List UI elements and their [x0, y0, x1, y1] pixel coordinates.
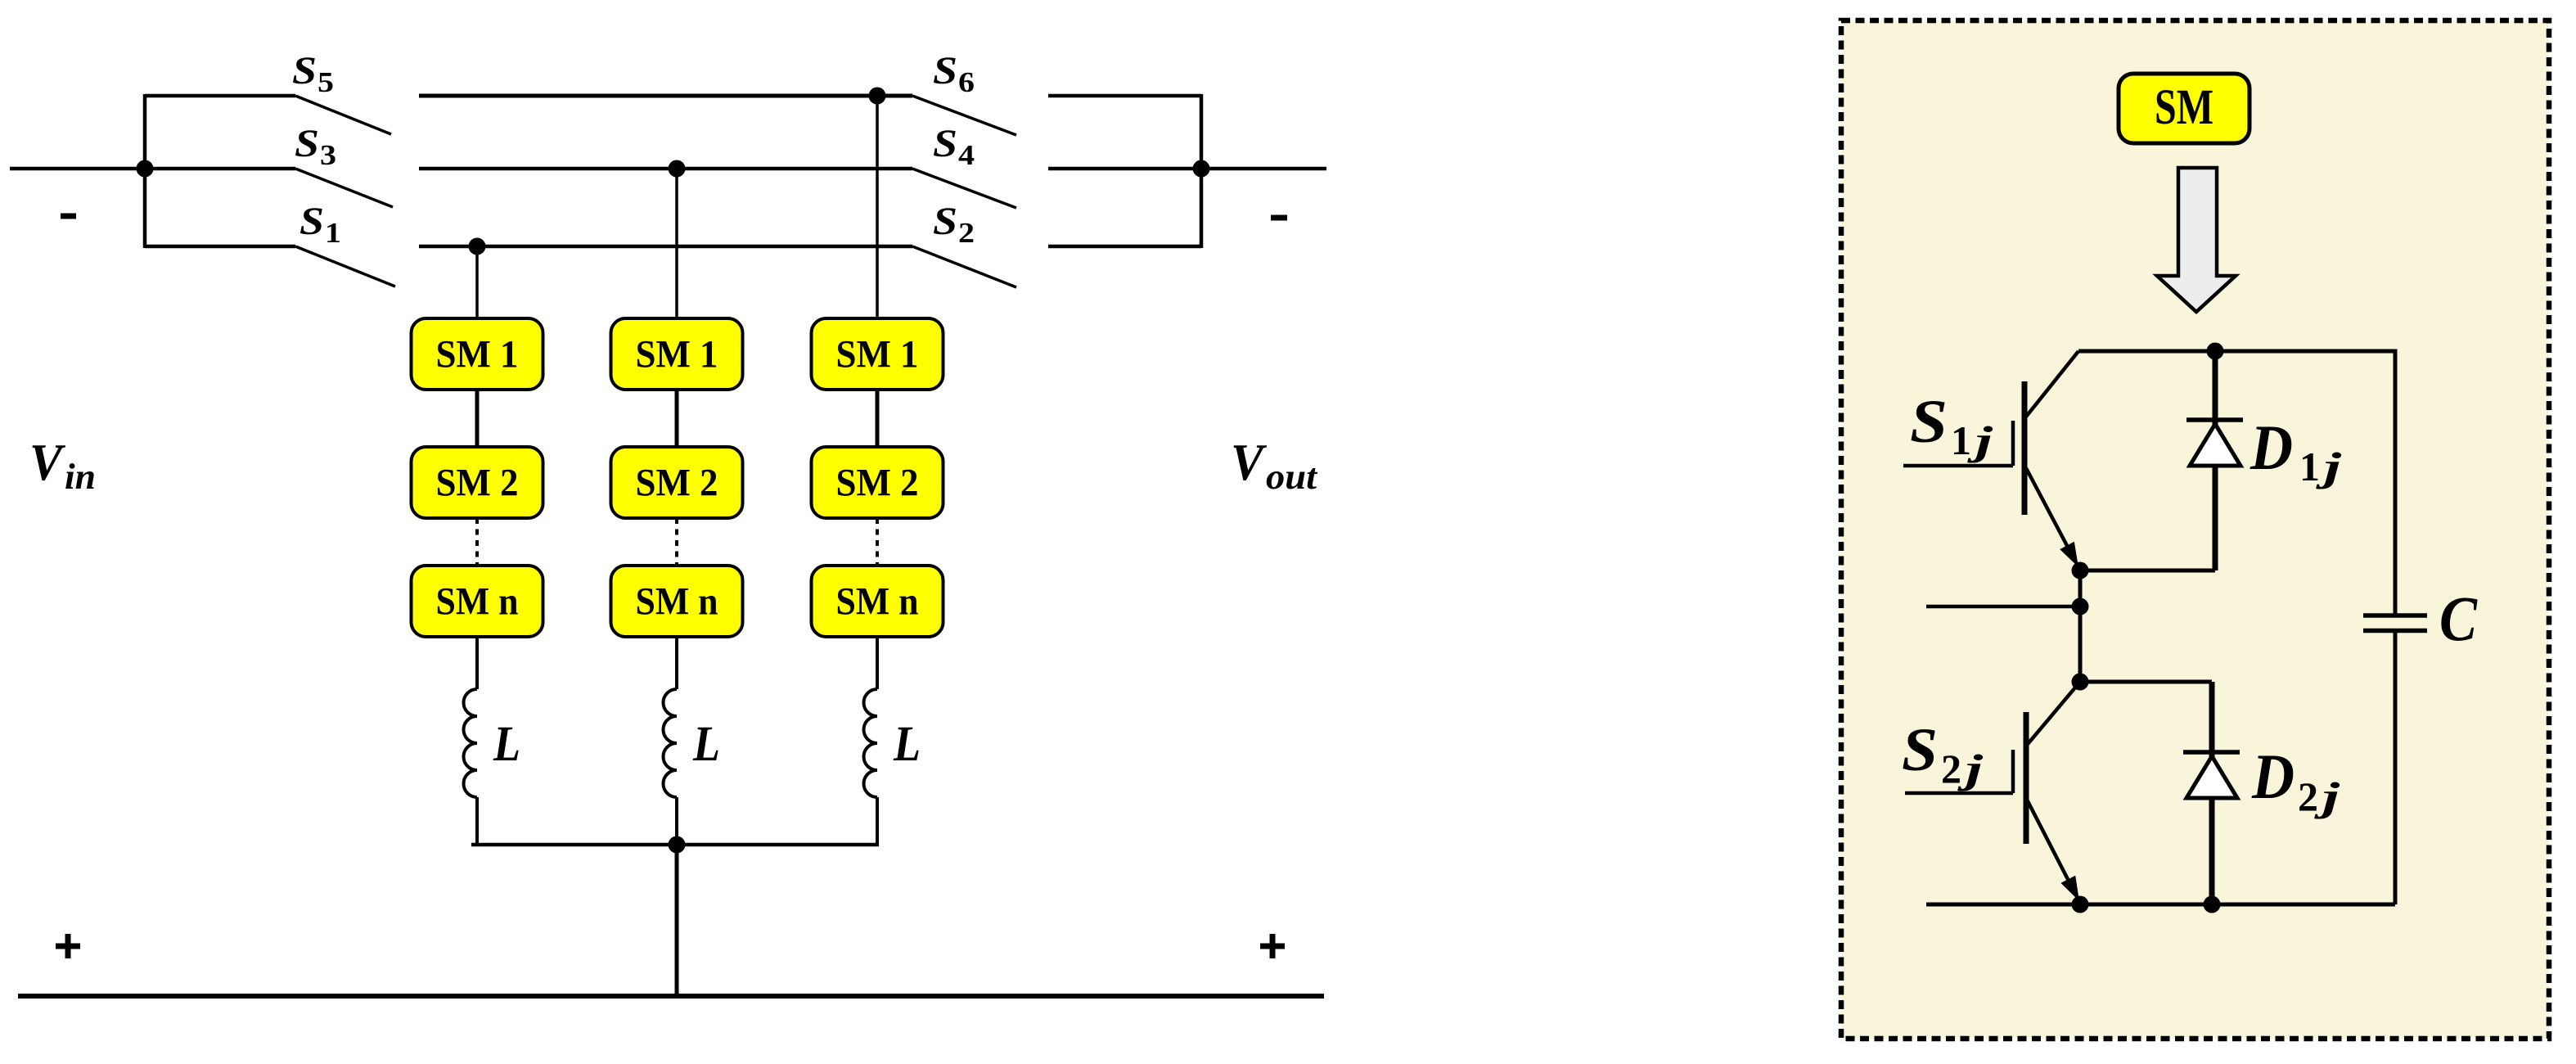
svg-text:S: S [933, 200, 957, 243]
svg-text:S: S [299, 200, 324, 243]
svg-text:SM 1: SM 1 [836, 333, 919, 376]
svg-text:4: 4 [958, 139, 975, 171]
svg-text:V: V [29, 433, 66, 491]
svg-text:SM n: SM n [436, 580, 519, 624]
svg-text:SM 1: SM 1 [436, 333, 519, 376]
svg-text:S: S [295, 122, 319, 165]
svg-text:SM: SM [2155, 80, 2213, 135]
svg-text:5: 5 [317, 66, 334, 98]
svg-text:S: S [933, 49, 957, 92]
svg-text:S: S [1902, 716, 1938, 784]
svg-text:D: D [2251, 741, 2295, 812]
svg-text:L: L [893, 717, 921, 772]
svg-text:SM n: SM n [636, 580, 718, 624]
svg-text:out: out [1266, 457, 1318, 497]
svg-text:6: 6 [958, 66, 975, 98]
svg-text:SM 2: SM 2 [836, 462, 919, 505]
svg-text:S: S [292, 49, 317, 92]
svg-text:1: 1 [325, 217, 341, 249]
svg-text:SM n: SM n [836, 580, 919, 624]
svg-text:1: 1 [1951, 417, 1971, 463]
svg-text:S: S [1910, 388, 1948, 456]
svg-text:3: 3 [320, 139, 336, 171]
svg-text:L: L [493, 717, 520, 772]
svg-text:SM 2: SM 2 [636, 462, 718, 505]
svg-text:C: C [2439, 583, 2478, 654]
svg-text:L: L [692, 717, 720, 772]
svg-text:2: 2 [958, 217, 975, 249]
svg-text:SM 1: SM 1 [636, 333, 718, 376]
svg-text:1: 1 [2299, 444, 2320, 489]
svg-text:D: D [2249, 412, 2293, 483]
svg-text:2: 2 [2298, 773, 2318, 819]
svg-text:2: 2 [1941, 746, 1961, 791]
svg-text:S: S [933, 122, 957, 165]
svg-text:V: V [1231, 433, 1268, 491]
svg-text:SM 2: SM 2 [436, 462, 519, 505]
svg-text:in: in [65, 457, 96, 497]
